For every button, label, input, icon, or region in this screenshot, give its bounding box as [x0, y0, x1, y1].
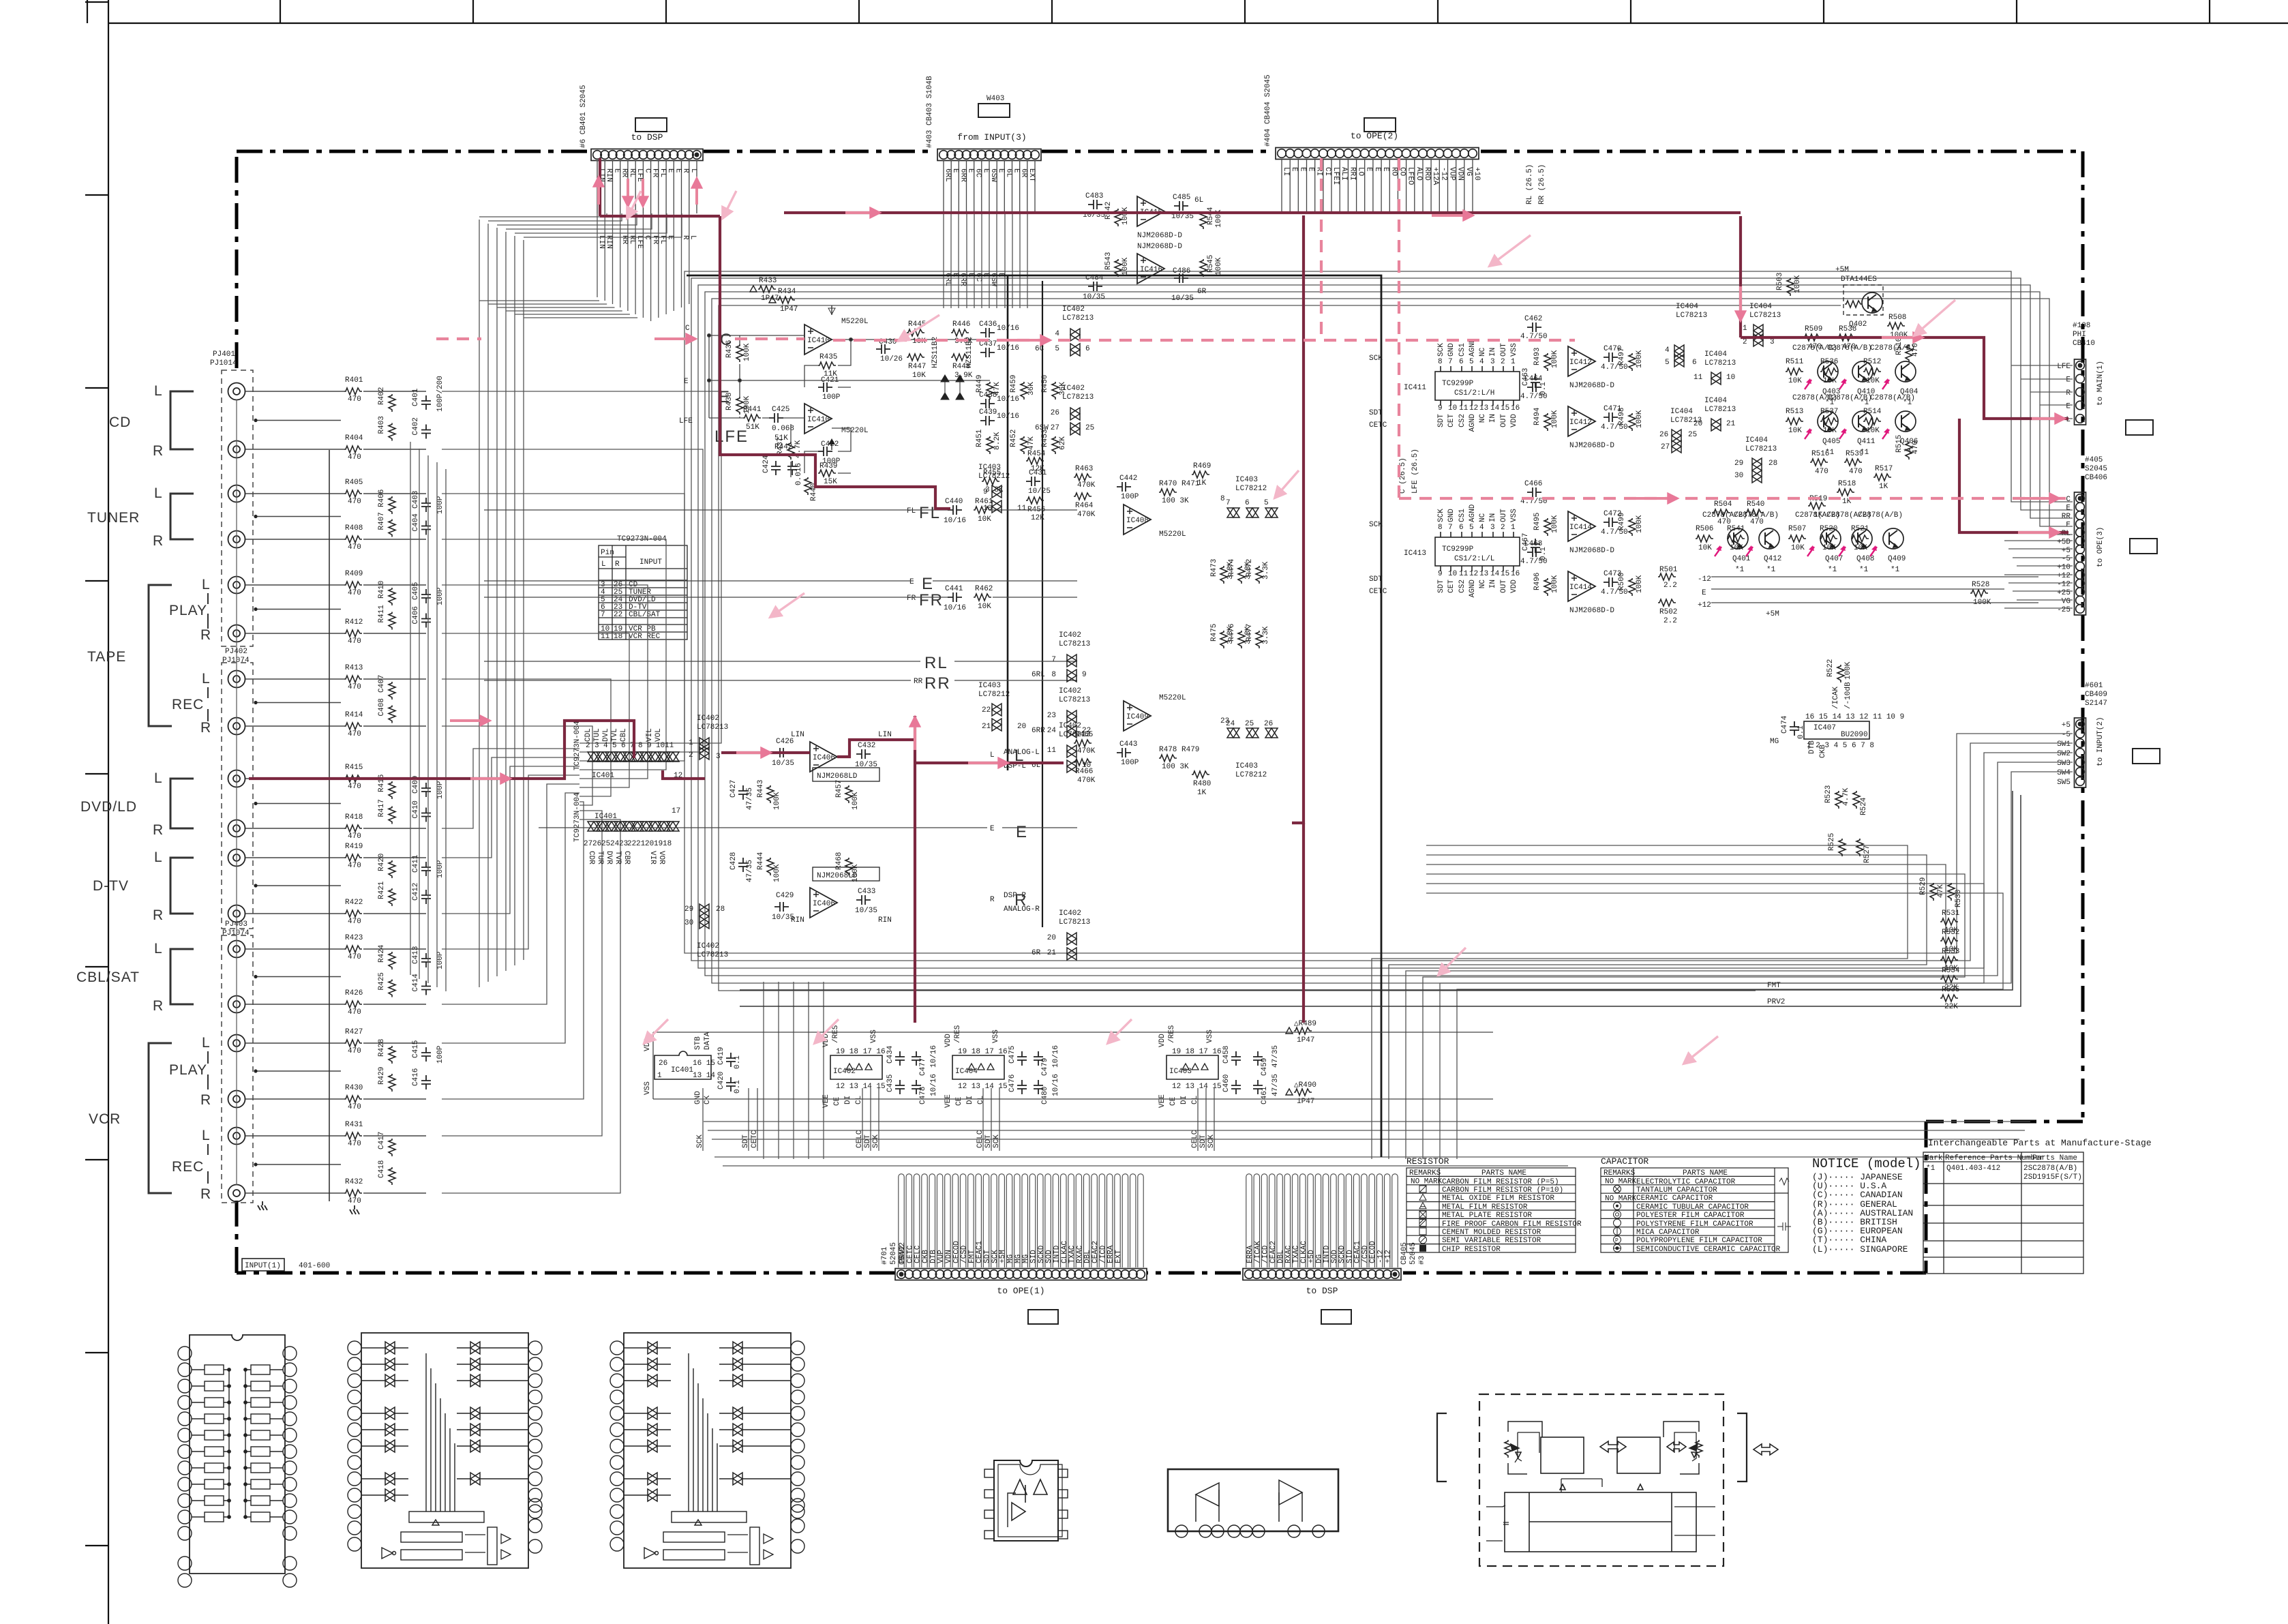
svg-text:3: 3 [716, 753, 721, 761]
svg-text:6C: 6C [1035, 345, 1044, 353]
svg-text:0.1: 0.1 [1539, 382, 1548, 395]
svg-text:R529: R529 [1919, 877, 1927, 895]
svg-text:R534: R534 [1942, 967, 1960, 975]
svg-text:SDT: SDT [1369, 409, 1383, 417]
IC row power rails [653, 1032, 1493, 1099]
svg-text:PJ1074: PJ1074 [222, 929, 250, 937]
pin labels of #404 CB404 S2045 [1282, 159, 1473, 212]
svg-text:LC78213: LC78213 [697, 723, 728, 732]
svg-text:R523: R523 [1824, 785, 1833, 803]
svg-text:R464: R464 [1075, 502, 1094, 510]
svg-text:C401: C401 [412, 388, 420, 406]
svg-text:E: E [1373, 167, 1381, 172]
svg-text:PJ401: PJ401 [213, 350, 235, 359]
svg-text:L: L [154, 485, 163, 501]
svg-text:PJ1074: PJ1074 [222, 657, 250, 665]
svg-text:1K: 1K [1197, 479, 1207, 487]
svg-text:R516: R516 [1811, 450, 1829, 458]
svg-text:NO MARK: NO MARK [1411, 1178, 1443, 1186]
svg-text:DBL: DBL [1277, 1250, 1285, 1263]
svg-text:C427: C427 [729, 780, 738, 798]
svg-text:#601: #601 [2085, 682, 2103, 690]
svg-text:R410: R410 [378, 581, 386, 599]
svg-text:IC404: IC404 [1676, 303, 1698, 311]
svg-text:IC404: IC404 [955, 1068, 978, 1076]
pcb locator rect for #404 CB404 S2045 [1364, 118, 1396, 132]
svg-text:SW1: SW1 [2057, 740, 2071, 749]
svg-text:TC9299P: TC9299P [1442, 545, 1474, 554]
svg-text:M5220L: M5220L [1159, 530, 1186, 539]
svg-text:Q411: Q411 [1857, 438, 1876, 446]
svg-text:TC9273N-004: TC9273N-004 [573, 721, 582, 770]
svg-text:P: P [1615, 1237, 1619, 1244]
svg-text:R511: R511 [1786, 358, 1804, 366]
svg-text:9: 9 [1438, 404, 1443, 412]
svg-text:R502: R502 [1659, 608, 1677, 616]
svg-text:R535: R535 [1942, 986, 1959, 994]
RCA jack strip PJ403 (dashed outline) [222, 935, 253, 1203]
svg-text:SDT: SDT [1437, 580, 1445, 593]
svg-text:DI: DI [1180, 1096, 1188, 1104]
svg-text:LO: LO [1357, 167, 1365, 177]
capacitor C430 10/25 [876, 338, 903, 363]
svg-text:/-10dB: /-10dB [1844, 682, 1852, 709]
svg-text:RIN: RIN [791, 916, 804, 924]
svg-text:10K: 10K [912, 372, 926, 380]
svg-text:*1: *1 [1926, 1164, 1936, 1173]
IC IC413 TC9299P electronic volume [1435, 532, 1520, 571]
svg-text:470: 470 [1912, 343, 1920, 357]
svg-text:1: 1 [1743, 325, 1747, 333]
bracket right of DSP block diagram [1737, 1413, 1747, 1482]
RCA jack CBL-L [228, 941, 245, 958]
svg-text:CETC: CETC [1369, 421, 1387, 430]
pin stub lines and labels of #701 52045 CB402 [899, 1174, 1143, 1267]
svg-text:E: E [922, 575, 934, 593]
resistors R523/R524 4.7K [1824, 785, 1868, 815]
svg-text:PARTS NAME: PARTS NAME [1683, 1169, 1728, 1177]
svg-text:10: 10 [1448, 404, 1457, 412]
svg-text:100K: 100K [1636, 575, 1644, 593]
svg-text:IC401: IC401 [592, 772, 614, 780]
svg-text:R407: R407 [378, 512, 386, 530]
svg-text:VSS: VSS [644, 1081, 652, 1095]
svg-text:C434: C434 [886, 1045, 894, 1064]
svg-text:C429: C429 [776, 892, 794, 900]
svg-text:IC414: IC414 [1569, 524, 1592, 532]
svg-text:6RR: 6RR [959, 168, 967, 182]
svg-text:7: 7 [1226, 499, 1231, 507]
svg-text:10/16: 10/16 [997, 395, 1019, 404]
svg-text:R540: R540 [1747, 500, 1764, 509]
svg-text:R474: R474 [1228, 558, 1236, 577]
svg-text:TUNER: TUNER [87, 510, 140, 526]
svg-text:△R489: △R489 [1294, 1020, 1316, 1028]
svg-text:2: 2 [1743, 338, 1747, 346]
svg-text:CEAC2: CEAC2 [1269, 1241, 1278, 1263]
IC IC411 TC9299P electronic volume [1435, 366, 1520, 406]
resistors R516/R539 470 [1810, 450, 1863, 476]
svg-text:R451: R451 [976, 429, 984, 447]
transistor Q401 2SC2878(A/B) with base resistor R506 10K [1696, 511, 1751, 574]
svg-text:100K: 100K [1636, 515, 1644, 533]
svg-text:100P: 100P [436, 781, 445, 799]
svg-text:R522: R522 [1826, 659, 1835, 677]
svg-text:470: 470 [348, 1047, 361, 1055]
svg-text:SCK: SCK [872, 1134, 880, 1148]
svg-text:5: 5 [1055, 345, 1059, 353]
svg-text:RR: RR [620, 235, 629, 245]
node FR with capacitor C441 and resistor R462 10K [484, 585, 1077, 612]
svg-text:Mark: Mark [1925, 1154, 1943, 1162]
svg-text:RO: RO [1389, 167, 1398, 177]
svg-text:C: C [643, 168, 651, 173]
pink path arrows [450, 177, 2064, 779]
svg-text:470: 470 [348, 730, 361, 738]
pcb locator rect below CB405 [1321, 1310, 1351, 1324]
svg-text:L: L [154, 770, 163, 786]
svg-text:CET: CET [1447, 414, 1456, 427]
svg-text:ERRA: ERRA [1107, 1245, 1115, 1263]
svg-text:1: 1 [1511, 358, 1516, 366]
svg-text:PARTS NAME: PARTS NAME [1481, 1169, 1526, 1177]
svg-text:R413: R413 [345, 664, 363, 672]
svg-text:R: R [200, 1092, 211, 1108]
svg-text:C: C [2066, 496, 2071, 504]
svg-text:CECOD: CECOD [952, 1241, 961, 1263]
switch IC403 LC78212 pins 9-11 [978, 464, 1027, 513]
buffer op-amp IC406 NJM2068LD (L) [791, 731, 892, 781]
svg-text:R452: R452 [1010, 430, 1018, 447]
svg-text:R417: R417 [378, 799, 386, 817]
RCA jack DVD-L [228, 770, 245, 787]
svg-text:4: 4 [1479, 358, 1484, 366]
svg-text:22: 22 [627, 840, 636, 848]
resistor R522 100K vertical [1826, 659, 1852, 682]
svg-text:C: C [685, 325, 690, 333]
svg-text:to MAIN(1): to MAIN(1) [2096, 361, 2105, 406]
svg-text:CL: CL [977, 1096, 985, 1104]
svg-text:R527: R527 [1863, 845, 1871, 863]
svg-text:LC78213: LC78213 [697, 951, 728, 959]
IC407 BU2090 serial driver [1781, 713, 1904, 750]
svg-text:LIN: LIN [791, 731, 804, 739]
svg-text:100P/200: 100P/200 [436, 376, 445, 412]
RCA jack VCR-PLAY-L [228, 1035, 245, 1052]
connector CB410 'to MAIN(1)' [2075, 359, 2086, 425]
svg-text:SCK: SCK [1437, 343, 1445, 357]
svg-text:25: 25 [1688, 431, 1697, 439]
svg-text:PRV2: PRV2 [899, 1246, 907, 1263]
input group TUNER [87, 485, 194, 549]
pin labels of #403 CB403 S104B [944, 160, 1035, 213]
svg-text:C406: C406 [412, 606, 420, 624]
svg-text:CBL/SAT: CBL/SAT [76, 969, 140, 985]
svg-text:24: 24 [1226, 720, 1235, 728]
svg-text:R536: R536 [1820, 358, 1838, 366]
svg-text:6C: 6C [974, 273, 982, 282]
svg-text:R441: R441 [743, 406, 762, 414]
power rails -12/E/+12 with R501/R502 2.2 [1658, 566, 2038, 625]
svg-text:SDT: SDT [864, 1134, 872, 1148]
svg-text:CEAC1: CEAC1 [976, 1241, 984, 1263]
svg-text:-12: -12 [1439, 167, 1447, 181]
svg-text:R530: R530 [1955, 890, 1963, 907]
svg-text:/CSD: /CSD [1361, 1245, 1370, 1263]
svg-text:RR: RR [620, 168, 629, 178]
svg-text:*1: *1 [1859, 566, 1869, 574]
svg-text:100P: 100P [1121, 493, 1139, 501]
svg-text:CBR: CBR [622, 851, 631, 864]
svg-text:L: L [154, 941, 163, 957]
svg-text:470: 470 [348, 637, 361, 646]
svg-text:VSS: VSS [870, 1029, 878, 1043]
svg-text:ALI: ALI [1340, 167, 1348, 181]
svg-text:R443: R443 [757, 780, 765, 798]
svg-text:20: 20 [645, 840, 654, 848]
svg-text:47K: 47K [1027, 436, 1036, 450]
svg-text:#405: #405 [2085, 456, 2103, 464]
svg-text:E: E [2066, 505, 2071, 513]
svg-text:R533: R533 [1942, 948, 1959, 956]
svg-text:7: 7 [1448, 358, 1453, 366]
svg-text:VIR: VIR [648, 851, 657, 864]
svg-text:100K: 100K [852, 864, 860, 882]
svg-text:RRI: RRI [1348, 167, 1356, 181]
svg-text:FR: FR [651, 235, 659, 245]
svg-text:10: 10 [983, 505, 992, 513]
wire bus - branches to right-edge connectors [1715, 271, 2073, 983]
svg-text:R429: R429 [378, 1067, 386, 1085]
resistors R525/R527 4.7K [1828, 833, 1871, 863]
resistor R519 1K [1808, 495, 1827, 520]
svg-text:51K: 51K [746, 423, 759, 432]
RCA jack strip PJ401 (dashed outline) [222, 370, 253, 646]
svg-text:IC412: IC412 [1569, 359, 1592, 367]
svg-text:C410: C410 [412, 800, 420, 818]
svg-text:L: L [990, 751, 995, 760]
svg-text:R: R [200, 720, 211, 736]
svg-text:SID: SID [1030, 1250, 1038, 1263]
svg-text:100K: 100K [1215, 257, 1223, 275]
switch IC402 pins 29/30-28 (R input select) [684, 904, 728, 959]
svg-text:E: E [1307, 167, 1315, 172]
RCA jack TAPE-REC-R [228, 718, 245, 735]
op-amp IC410 M5220L (center) [804, 305, 869, 355]
svg-text:10K: 10K [1822, 544, 1836, 552]
svg-text:R411: R411 [378, 605, 386, 623]
svg-text:M5220L: M5220L [1159, 694, 1186, 702]
svg-text:R426: R426 [345, 989, 363, 997]
node E mid row [484, 575, 1077, 593]
svg-text:2: 2 [1501, 524, 1505, 532]
svg-text:R435: R435 [819, 353, 837, 361]
svg-text:CETC: CETC [906, 1245, 914, 1263]
svg-text:SDT: SDT [1369, 575, 1383, 584]
svg-text:R473: R473 [1210, 559, 1218, 577]
svg-text:TUL: TUL [593, 728, 601, 742]
svg-text:LC78213: LC78213 [1059, 640, 1090, 648]
svg-text:R506: R506 [1696, 525, 1713, 533]
svg-text:9: 9 [983, 488, 988, 496]
svg-text:R427: R427 [345, 1028, 363, 1036]
svg-text:PHI: PHI [2073, 331, 2086, 339]
wire - jack common bus [329, 450, 330, 1201]
svg-text:PRV2: PRV2 [1767, 998, 1785, 1006]
svg-text:7: 7 [601, 611, 605, 619]
svg-text:C424: C424 [762, 455, 770, 473]
switch IC403 pins 23/24/25/26 (vertical bowties) [1220, 717, 1278, 779]
svg-text:SCK: SCK [1207, 1134, 1216, 1148]
svg-text:8: 8 [1438, 524, 1443, 532]
svg-text:#6 CB401 S2045: #6 CB401 S2045 [579, 85, 588, 148]
svg-text:R431: R431 [345, 1121, 363, 1129]
svg-text:3: 3 [1490, 524, 1495, 532]
svg-text:LC78213: LC78213 [1059, 696, 1090, 704]
input group VCR PLAY/REC [89, 1035, 211, 1202]
svg-text:CKB: CKB [922, 1250, 930, 1263]
svg-text:R434: R434 [778, 288, 796, 296]
svg-text:100 3K: 100 3K [1162, 497, 1189, 505]
node RL / RR rows [484, 654, 1077, 693]
svg-text:13 14: 13 14 [693, 1072, 715, 1080]
svg-text:TC9299P: TC9299P [1442, 380, 1474, 388]
svg-text:R497: R497 [1618, 348, 1626, 365]
input group CBL/SAT [76, 941, 194, 1014]
svg-text:10/35: 10/35 [1171, 295, 1194, 303]
svg-text:C458: C458 [1222, 1046, 1231, 1064]
svg-text:470: 470 [348, 683, 361, 691]
svg-text:POLYSTYRENE FILM CAPACITOR: POLYSTYRENE FILM CAPACITOR [1636, 1220, 1753, 1229]
svg-text:R457: R457 [835, 780, 843, 798]
svg-text:IC402: IC402 [1059, 687, 1081, 695]
svg-text:Q401: Q401 [1732, 555, 1751, 563]
svg-text:/ICD: /ICD [1099, 1245, 1107, 1263]
svg-text:CLKAC: CLKAC [1300, 1241, 1308, 1263]
resistor R528 100K [1970, 581, 1991, 607]
resistor R439 15K [818, 462, 837, 486]
svg-text:IC401: IC401 [594, 813, 617, 821]
svg-text:100K: 100K [1844, 661, 1852, 680]
svg-text:R532: R532 [1942, 929, 1959, 937]
svg-text:TVL: TVL [611, 728, 619, 742]
svg-text:6SW: 6SW [989, 168, 997, 182]
svg-text:7: 7 [1051, 656, 1056, 664]
svg-text:10K: 10K [1791, 544, 1805, 552]
svg-text:NC: NC [1479, 347, 1487, 357]
resistor R489 1P47 [1286, 1020, 1316, 1044]
connector CB406 'to OPE(3)' [2075, 492, 2086, 615]
svg-text:100P: 100P [436, 1045, 445, 1064]
svg-text:19: 19 [654, 840, 663, 848]
svg-text:CETC: CETC [751, 1130, 759, 1148]
svg-text:36K: 36K [1027, 382, 1036, 395]
svg-text:IC403: IC403 [1169, 1068, 1192, 1076]
svg-text:*1: *1 [1735, 566, 1745, 574]
svg-text:R449: R449 [976, 375, 984, 393]
svg-text:Q401.403-412: Q401.403-412 [1946, 1164, 2000, 1173]
svg-text:470: 470 [348, 783, 361, 791]
svg-text:IC403: IC403 [978, 682, 1001, 690]
svg-text:Pin: Pin [601, 549, 614, 557]
svg-text:C442: C442 [1119, 475, 1137, 483]
svg-text:15: 15 [1501, 404, 1509, 412]
svg-text:CERAMIC TUBULAR CAPACITOR: CERAMIC TUBULAR CAPACITOR [1636, 1203, 1749, 1212]
svg-text:IC402: IC402 [1059, 631, 1081, 640]
svg-text:16 15 14 13 12 11 10 9: 16 15 14 13 12 11 10 9 [1805, 713, 1904, 721]
op-amp IC410 M5220L (LFE) [804, 404, 869, 450]
svg-text:RL: RL [628, 235, 636, 244]
block diagram - DSP module (dashed outline) [1479, 1394, 1723, 1566]
svg-text:CS2: CS2 [1458, 414, 1466, 427]
svg-text:C485: C485 [1173, 194, 1190, 202]
svg-text:DTB: DTB [929, 1250, 937, 1263]
svg-text:1: 1 [1511, 524, 1516, 532]
svg-text:#108: #108 [2073, 322, 2090, 330]
svg-text:10K: 10K [1866, 427, 1880, 435]
svg-text:LFEO: LFEO [1406, 167, 1415, 185]
svg-text:L: L [689, 235, 697, 240]
svg-text:11: 11 [1017, 505, 1027, 513]
svg-text:*1: *1 [1903, 449, 1912, 457]
resistors R445 10K / R446 3.9K (top), R447 10K / R448 3.9K [907, 320, 973, 380]
svg-text:Q405: Q405 [1822, 438, 1840, 446]
svg-text:LC78213: LC78213 [1059, 918, 1090, 927]
svg-text:R425: R425 [378, 972, 386, 990]
svg-text:14: 14 [1490, 404, 1500, 412]
svg-text:SCK: SCK [696, 1134, 704, 1148]
svg-text:DI: DI [844, 1096, 852, 1104]
svg-text:R420: R420 [378, 854, 386, 871]
svg-text:METAL PLATE RESISTOR: METAL PLATE RESISTOR [1442, 1212, 1532, 1220]
svg-text:NJM2068D-D: NJM2068D-D [1137, 232, 1182, 240]
IC IC402 (switch driver DIP) [830, 1055, 882, 1079]
svg-text:(L)····· SINGAPORE: (L)····· SINGAPORE [1812, 1244, 1908, 1254]
resistor R490 1P47 [1286, 1081, 1316, 1106]
svg-text:10/35: 10/35 [772, 760, 794, 768]
svg-text:INTD: INTD [1053, 1245, 1062, 1263]
svg-text:RL (26.5): RL (26.5) [1526, 164, 1534, 205]
svg-text:*1: *1 [1891, 566, 1900, 574]
svg-text:E: E [1290, 167, 1298, 172]
svg-text:VEE: VEE [1158, 1094, 1166, 1108]
svg-text:LC78212: LC78212 [1235, 771, 1267, 779]
svg-text:LC78213: LC78213 [1059, 731, 1090, 739]
svg-text:LC78213: LC78213 [1745, 445, 1777, 453]
resistor R435 11K [818, 353, 837, 378]
svg-text:R508: R508 [1888, 314, 1906, 322]
svg-text:4: 4 [1055, 330, 1059, 338]
svg-text:RR: RR [924, 674, 951, 693]
svg-text:470: 470 [348, 862, 361, 870]
svg-text:E: E [990, 825, 995, 833]
svg-text:to OPE(2): to OPE(2) [1351, 131, 1398, 141]
svg-text:26: 26 [1051, 409, 1059, 417]
svg-text:470: 470 [348, 498, 361, 506]
svg-text:18: 18 [614, 633, 622, 641]
svg-text:5: 5 [612, 742, 617, 750]
label INPUT(1) board name [242, 1259, 330, 1271]
svg-text:R543: R543 [1104, 252, 1113, 270]
svg-text:L: L [202, 671, 211, 687]
switch IC404 pins 1/2-3 [1743, 303, 1781, 346]
svg-text:R541: R541 [1727, 525, 1745, 533]
capacitor C424 0.016 / C423 220/10 / resistor R440 820 [762, 455, 818, 501]
svg-text:10/16: 10/16 [1052, 1074, 1060, 1096]
svg-text:C419: C419 [717, 1047, 725, 1065]
svg-text:VSS: VSS [1206, 1029, 1214, 1043]
svg-text:IN: IN [1489, 348, 1497, 357]
